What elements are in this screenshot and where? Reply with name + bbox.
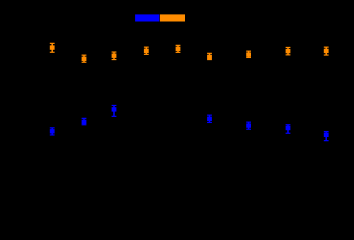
error bar blue point 2 — [82, 118, 87, 124]
error bar orange point 6 — [207, 53, 212, 59]
legend sample series-2 (orange) — [160, 14, 185, 21]
error bar orange point 2 — [82, 55, 87, 62]
error bar blue point 4 — [207, 115, 212, 122]
error bar blue point 1 — [50, 128, 55, 135]
error bar orange point 9 — [324, 47, 329, 55]
error bar orange point 8 — [286, 47, 291, 54]
legend sample series-1 (blue) — [135, 14, 159, 21]
error bar orange point 3 — [112, 52, 117, 60]
error bar blue point 3 — [112, 105, 117, 116]
error bar blue point 7 — [324, 132, 329, 141]
error bar orange point 4 — [144, 47, 149, 54]
error bar blue point 6 — [286, 125, 291, 134]
error bar orange point 5 — [176, 45, 181, 52]
error bar blue point 5 — [246, 122, 251, 129]
error bar orange point 1 — [50, 43, 55, 52]
error bar orange point 7 — [246, 51, 251, 57]
